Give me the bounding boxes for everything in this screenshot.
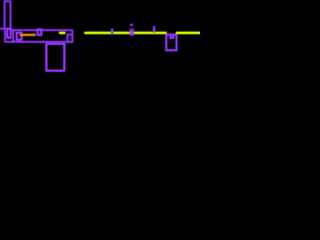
laser main left bbox=[85, 32, 167, 34]
floor segment 1 bbox=[5, 41, 13, 43]
tick 3 on laser bbox=[153, 26, 155, 32]
end wall bbox=[71, 30, 73, 42]
dot above tick pair bbox=[131, 24, 133, 26]
tick pair legs bbox=[131, 29, 133, 36]
hanging box 1 bbox=[7, 29, 10, 38]
end box under line B bbox=[67, 35, 72, 43]
left wall bbox=[4, 29, 6, 42]
ceiling line A bbox=[0, 28, 11, 30]
step down and ceiling line B bbox=[11, 29, 72, 30]
laser main right bbox=[176, 32, 200, 34]
tall room top-left bbox=[5, 1, 11, 29]
floor segment 2 bbox=[13, 41, 72, 43]
box 2 bbox=[17, 33, 22, 40]
orange beam bbox=[20, 34, 36, 36]
laser segment small bbox=[59, 32, 65, 34]
crate on laser bbox=[166, 35, 176, 51]
tick 1 on laser bbox=[111, 29, 113, 35]
vertical divider bbox=[12, 30, 14, 42]
big room below bbox=[46, 44, 64, 71]
box 3 bbox=[38, 29, 42, 35]
crate handle bbox=[170, 35, 173, 38]
